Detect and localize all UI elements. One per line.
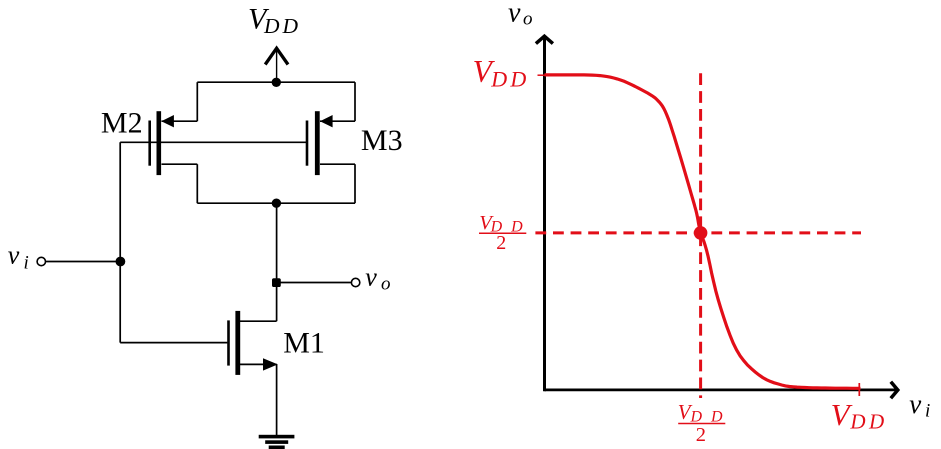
svg-text:v: v [909,389,921,419]
svg-text:DD: DD [849,410,887,434]
svg-text:DD: DD [490,67,529,92]
svg-text:DD: DD [263,14,301,38]
svg-text:M1: M1 [283,326,325,359]
svg-text:v: v [365,263,377,292]
svg-text:M2: M2 [101,107,143,140]
svg-text:i: i [925,401,930,422]
svg-text:v: v [8,241,20,270]
svg-text:i: i [24,253,29,274]
svg-text:o: o [381,274,391,295]
svg-text:V: V [831,397,853,432]
svg-text:v: v [508,0,521,28]
svg-text:M3: M3 [361,124,403,157]
svg-text:2: 2 [496,232,506,254]
svg-text:o: o [523,9,533,30]
svg-text:2: 2 [696,424,706,446]
